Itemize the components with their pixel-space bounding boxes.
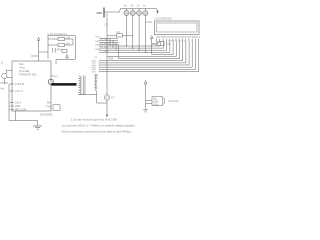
resistor R1 [124, 10, 129, 15]
svg-text:TV/B: TV/B [46, 106, 52, 109]
VCC arrow A2 [56, 55, 76, 65]
resistor R3 [137, 10, 142, 15]
wire data line 0 [100, 42, 183, 61]
wire net RB7 line [99, 42, 170, 53]
wire to ground arrow [106, 100, 108, 117]
bus wires from LCD to left (staircase) [99, 42, 199, 72]
svg-text:2ND: 2ND [15, 104, 20, 108]
transformer T1 core [83, 76, 85, 96]
svg-text:VSS VDD VO RS RW E D0 D1 D2 D3: VSS VDD VO RS RW E D0 D1 D2 D3 D4 D5 D6 … [156, 37, 200, 39]
LCD pin stubs [157, 39, 199, 42]
wire rail to resistors [105, 9, 157, 13]
wire net E line [107, 42, 176, 57]
net labels left of bus [92, 61, 97, 74]
svg-text:D1 1N4148 C6: D1 1N4148 C6 [50, 33, 67, 36]
wire data line 5 [100, 42, 199, 72]
wire data line 2 [100, 42, 189, 66]
capacitor C3 electrolytic [104, 95, 110, 101]
svg-text:2.E A: 2.E A [15, 101, 21, 105]
capacitor C4 [53, 48, 55, 53]
svg-text:Osc: Osc [19, 62, 24, 66]
resistor R7 on RW wire [107, 34, 133, 37]
connector J1 small box [53, 105, 60, 111]
svg-text:you can use LM317 a 7. Which i: you can use LM317 a 7. Which is a variab… [62, 124, 135, 128]
junction dots resistors to bus [126, 45, 146, 53]
resistor R2 [130, 10, 135, 15]
wire VCC feed dash [97, 12, 103, 14]
svg-text:LCD1: LCD1 [146, 22, 153, 24]
transformer T1 secondary winding [95, 74, 97, 91]
svg-text:KNOB: KNOB [1, 82, 8, 85]
wire vertical main bus [106, 13, 108, 95]
svg-text:+Vcc: +Vcc [19, 66, 26, 70]
potentiometer VR1 [152, 42, 165, 55]
svg-text:TRANSTR 2N1: TRANSTR 2N1 [19, 73, 37, 77]
svg-text:LCD MODULE: LCD MODULE [155, 17, 172, 21]
crystal X1 [2, 73, 7, 78]
resistor R6 [58, 44, 65, 47]
caption text [62, 118, 135, 134]
microcontroller U1 box [12, 61, 51, 111]
PIC port ladder stubs upper [99, 38, 119, 58]
svg-text:On-LINE: On-LINE [19, 69, 29, 73]
svg-text:4MHz: 4MHz [57, 49, 64, 52]
svg-text:MB L/100: MB L/100 [15, 108, 27, 112]
net stub ticks [98, 60, 100, 72]
wire left to ground [9, 84, 38, 126]
ground symbol [33, 126, 42, 129]
wire net VO line [152, 42, 174, 55]
wire data line 1 [100, 42, 186, 63]
U1 left pin OSC1 [10, 84, 15, 110]
U1 right labels [46, 102, 52, 109]
U1 internal labels [19, 62, 37, 77]
svg-text:C2: C2 [105, 23, 109, 27]
transformer T1 primary loop [48, 79, 53, 84]
svg-text:(*): (*) [55, 76, 58, 79]
svg-text:R/W: R/W [109, 57, 114, 60]
wire net RB6 line [99, 42, 167, 51]
U1 right pin tick [51, 75, 55, 77]
transformer T1 primary winding [79, 76, 82, 94]
regulator U2 [143, 81, 165, 113]
capacitor C1 bar [103, 8, 105, 18]
value labels cluster [50, 33, 71, 52]
svg-text:7 8 9 10 11 12 13 14: 7 8 9 10 11 12 13 14 [168, 41, 187, 43]
wire net RB5 line [99, 42, 164, 49]
capacitor C5 [62, 50, 67, 53]
net labels lower column [94, 75, 99, 89]
VCC arrow A1 left [31, 37, 48, 61]
svg-text:(+5) Vout: (+5) Vout [168, 99, 179, 103]
svg-text:VOut: VOut [153, 103, 159, 106]
svg-text:[ CLK B: [ CLK B [15, 82, 24, 86]
wire data line 4 [100, 42, 195, 70]
svg-text:[ LK TI: [ LK TI [15, 89, 23, 93]
transformer bottom wire [79, 91, 107, 103]
resistor R5 [58, 38, 65, 41]
svg-text:RA: RA [47, 102, 51, 105]
svg-text:DOC/MOB: DOC/MOB [40, 113, 53, 117]
cable thick [52, 83, 77, 86]
wire net RB4 line [99, 42, 160, 47]
svg-text:1.2k volt should be given by 5: 1.2k volt should be given by 5VdC 500 [71, 118, 117, 122]
svg-text:Emitt connected w panel and ca: Emitt connected w panel and can be used … [62, 130, 132, 134]
svg-text:C3: C3 [111, 96, 115, 100]
node supply arrow down [157, 9, 158, 11]
svg-text:hfe: hfe [1, 88, 5, 91]
resistor R4 [143, 10, 148, 15]
component cluster wires [48, 34, 75, 60]
net labels on ladder [94, 37, 109, 59]
value labels above resistors [124, 4, 146, 8]
LCD module LCD1 [155, 21, 200, 35]
VCC arrow at LCD pin2 [150, 36, 160, 45]
wire data line 3 [100, 42, 192, 68]
wire net RS line [119, 42, 180, 59]
